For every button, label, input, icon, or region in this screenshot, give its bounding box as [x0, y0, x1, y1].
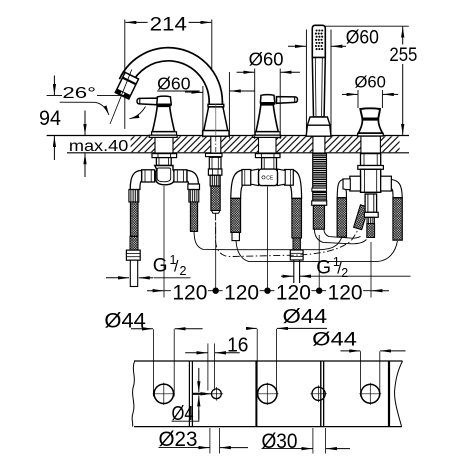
hose B left — [231, 198, 241, 240]
handle A (left lever handle) — [137, 96, 177, 137]
svg-text:Ø60: Ø60 — [346, 28, 379, 49]
deck cutouts for shanks — [155, 136, 380, 153]
valve A right port hex — [174, 170, 187, 182]
routing line from hose A right (solid) — [194, 232, 342, 250]
dimension O44 no.2 — [247, 306, 327, 329]
dimension O60 knob — [342, 72, 398, 108]
G 1/2 label left — [106, 253, 191, 278]
knob right elbow — [391, 180, 402, 198]
svg-text:26°: 26° — [62, 85, 96, 102]
dimension O23 — [159, 428, 249, 454]
right break line — [395, 361, 403, 427]
dimension O44 no.1 — [104, 310, 202, 333]
valve B left elbow — [231, 170, 245, 198]
spout outlet nozzle — [115, 72, 138, 99]
spout mounting stud and hose — [206, 137, 223, 214]
dimension O60 spout — [157, 72, 254, 139]
svg-text:Ø60: Ø60 — [157, 73, 191, 93]
mounting deck hatched band — [47, 136, 409, 153]
valve B left hex — [242, 170, 251, 186]
svg-text:2: 2 — [180, 264, 187, 278]
dimension O44 no.3 — [312, 328, 405, 351]
hand shower wand — [312, 25, 325, 117]
valve A left port hex — [142, 170, 155, 182]
knob right hose — [393, 198, 402, 241]
valve B right cone — [277, 169, 285, 186]
spout gooseneck — [119, 48, 222, 105]
svg-text:120: 120 — [224, 279, 259, 304]
routing centerline from spout hose (dash-dot) — [216, 214, 359, 257]
dimension O60 shower — [288, 28, 379, 135]
valve A right elbow — [187, 170, 198, 184]
O4 dimension — [198, 368, 200, 392]
valve A locknut — [130, 154, 198, 190]
hole O44 no.1 — [153, 329, 175, 405]
valve A body — [155, 166, 175, 185]
svg-text:120: 120 — [328, 279, 363, 304]
svg-text:2: 2 — [341, 266, 348, 280]
dimension 214 — [125, 14, 212, 129]
svg-text:CE: CE — [266, 176, 274, 182]
svg-text:94: 94 — [39, 107, 61, 130]
knob tilted spare hose — [354, 205, 369, 230]
svg-text:214: 214 — [150, 14, 187, 36]
hose A right (short, to routing) — [188, 184, 200, 231]
svg-text:G: G — [316, 257, 331, 278]
svg-text:G: G — [153, 256, 168, 277]
joint line 3 (double) — [320, 361, 322, 427]
svg-text:max.40: max.40 — [69, 138, 128, 155]
valve A shank — [156, 158, 171, 166]
knob left hose — [337, 198, 346, 237]
right end edge — [388, 361, 390, 427]
G 1/2 label right — [281, 255, 411, 280]
120 dimension chain — [147, 186, 389, 304]
svg-text:/: / — [174, 259, 179, 276]
knob center stud — [365, 194, 377, 212]
hole O30 — [310, 361, 327, 427]
svg-text:120: 120 — [172, 279, 207, 304]
knob right hexes — [381, 176, 392, 191]
left break line — [132, 361, 135, 427]
svg-text:Ø44: Ø44 — [312, 328, 357, 350]
svg-text:Ø4: Ø4 — [172, 403, 194, 425]
valve B right elbow — [289, 170, 302, 198]
knob left elbow — [337, 180, 346, 198]
valve B locknut and shank — [231, 154, 302, 199]
valve B center body — [259, 169, 278, 186]
svg-text:Ø60: Ø60 — [355, 72, 386, 91]
bottom view: tub ledge strip — [132, 361, 402, 427]
knob left hexes — [350, 176, 361, 191]
svg-text:Ø30: Ø30 — [262, 430, 298, 453]
svg-text:Ø60: Ø60 — [249, 50, 284, 70]
svg-text:Ø44: Ø44 — [283, 306, 328, 328]
valve B right hex — [285, 170, 294, 186]
joint line 1 (double) — [188, 361, 190, 427]
joint line 2 — [255, 361, 257, 427]
spout escutcheon — [203, 104, 229, 136]
shower hose curve (double line) — [314, 229, 366, 244]
dimension 26 deg — [47, 70, 146, 125]
svg-text:255: 255 — [389, 44, 417, 66]
valve A left elbow — [130, 170, 141, 189]
dimension max.40 — [69, 111, 128, 178]
svg-text:120: 120 — [276, 279, 311, 304]
dimension 255 — [326, 26, 418, 135]
hole O44 no.3 — [359, 351, 381, 405]
handle B (right lever handle) — [253, 95, 298, 138]
valve B left cone — [251, 169, 259, 186]
O4 slot bar — [172, 368, 212, 425]
dimension 94 — [39, 76, 61, 161]
hole O44 no.2 — [256, 329, 278, 405]
diverter knob — [358, 108, 384, 136]
dimension O30 — [262, 428, 351, 454]
shower hose below deck (threaded shank) — [312, 153, 327, 229]
dimension O60 handle B — [237, 50, 300, 139]
diverter knob below deck — [337, 154, 402, 238]
dimension 16 — [185, 335, 248, 391]
hose A left (braided) — [126, 190, 140, 287]
hose B right (long with G1/2 end) — [290, 198, 303, 287]
shower holder escutcheon — [306, 117, 331, 136]
routing line from hose B left (solid) — [236, 241, 397, 262]
hole O23 — [210, 387, 224, 401]
